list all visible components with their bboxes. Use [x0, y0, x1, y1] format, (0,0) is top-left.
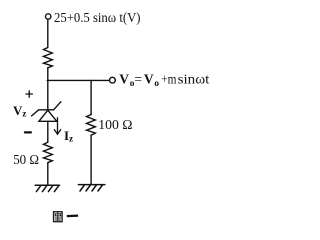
label plus [26, 91, 32, 97]
svg-text:o: o [154, 79, 159, 89]
output terminal [110, 77, 116, 83]
current arrow Iz [54, 118, 60, 134]
svg-text:sinωt: sinωt [178, 73, 210, 88]
svg-text:V: V [144, 72, 154, 87]
svg-text:Vz: Vz [13, 103, 26, 119]
svg-text:100 Ω: 100 Ω [98, 118, 132, 133]
svg-text:V: V [119, 72, 129, 87]
resistor (series) [44, 48, 53, 68]
wire node to output [47, 79, 109, 81]
resistor 100 ohm [87, 115, 96, 136]
resistor 50 ohm [44, 142, 53, 163]
figure caption glyph (CJK tofu-like) [54, 212, 63, 222]
ground (right) [78, 185, 104, 191]
svg-text:+m: +m [161, 73, 176, 88]
wire terminal to resistor [47, 19, 49, 47]
svg-text:Iz: Iz [64, 128, 73, 144]
zener diode cathode bar [32, 102, 61, 116]
wire zener to 50 ohm [47, 121, 49, 142]
input terminal [46, 14, 51, 19]
figure caption dash [67, 215, 78, 218]
wire 50 ohm to ground [47, 163, 49, 185]
zener diode triangle [39, 110, 57, 121]
svg-text:25+0.5 sinω t(V): 25+0.5 sinω t(V) [54, 11, 141, 26]
wire node to 100 ohm [90, 80, 92, 114]
wire resistor to zener [47, 68, 49, 110]
ground (left) [35, 185, 59, 191]
wire 100 ohm to ground [90, 135, 92, 184]
svg-text:50 Ω: 50 Ω [13, 153, 39, 168]
svg-text:=: = [134, 73, 142, 88]
label minus [25, 131, 31, 133]
